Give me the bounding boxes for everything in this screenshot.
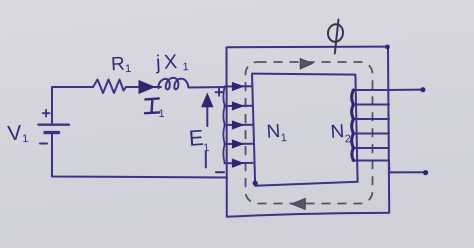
battery plus sign [43,110,50,117]
transformer core inner window [252,74,358,186]
secondary terminal top wire [389,89,422,91]
wire top-left from battery to resistor [52,87,93,125]
secondary terminal bottom wire [389,171,424,173]
primary winding N1 [223,86,252,163]
label I1 [145,98,165,120]
primary winding arrowheads [232,82,243,167]
secondary winding left loops [352,90,354,161]
battery V1 [39,125,70,133]
resistor R1 [93,80,126,94]
flux label phi [327,20,344,54]
label V1 [7,121,29,147]
plus sign at E1 top [216,89,223,96]
flux path (dashed) [246,62,373,204]
minus sign at E1 bottom [216,171,224,173]
secondary terminal top dot [420,87,425,92]
wire resistor to arrow to coil [126,86,161,88]
label N1 [266,121,287,146]
flux arrow bottom (leftward) [292,199,305,210]
inductor jX1 [158,78,188,90]
label jX1 [154,51,189,75]
current arrow I1 [139,81,154,94]
battery minus sign [40,143,47,145]
label R1 [111,53,132,76]
wire bottom from battery to core [52,133,227,178]
label E1 [188,125,210,156]
flux arrow top (rightward) [300,59,312,69]
wire coil to core [189,86,227,89]
secondary terminal bottom connector [388,161,390,173]
emf arrow E1 [206,104,208,168]
secondary winding N2 [353,90,390,161]
label N2 [330,121,352,147]
transformer core outer boundary [227,47,390,217]
core outer top-right corner dot [385,45,390,50]
secondary terminal bottom dot [423,170,428,175]
svg-text:1: 1 [159,108,165,120]
core inner bottom-left corner dot [253,181,258,186]
